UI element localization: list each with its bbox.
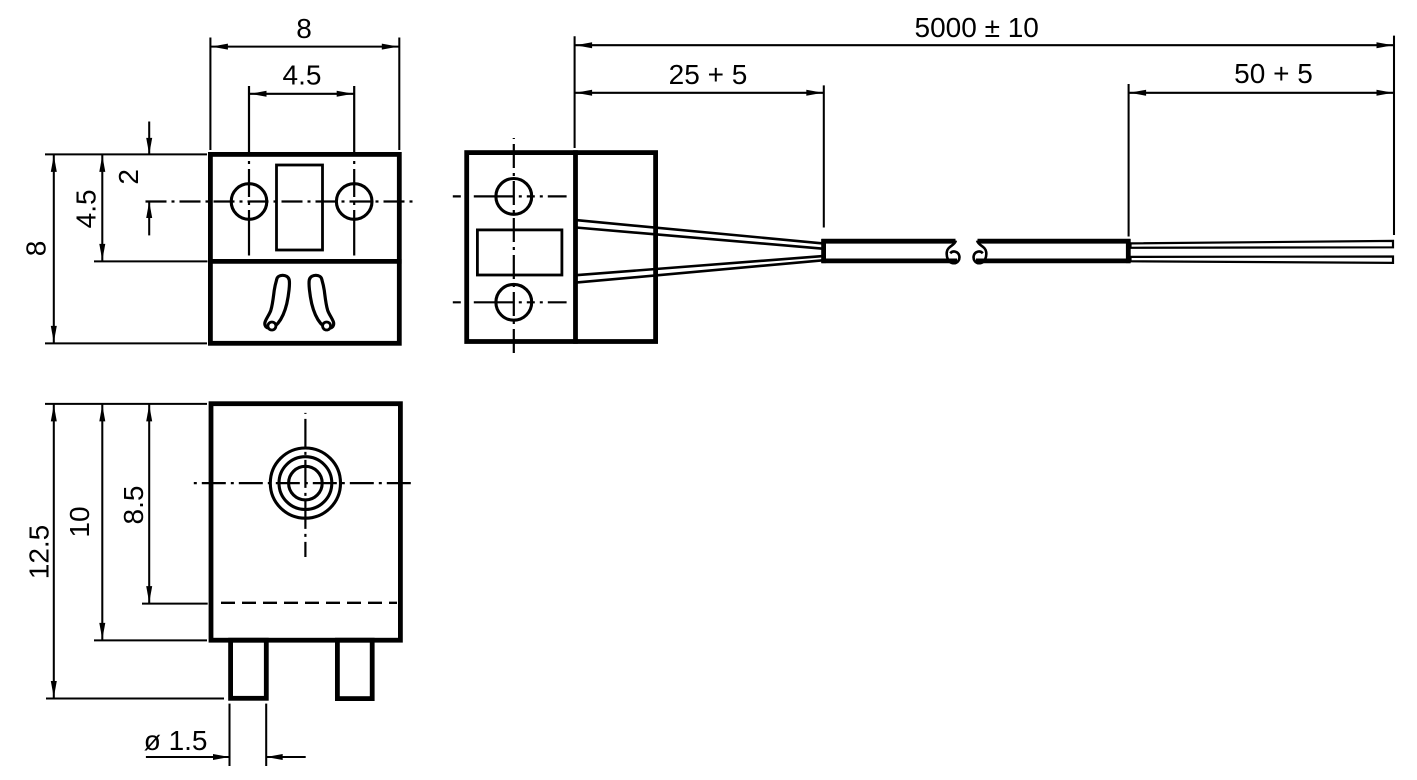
- right hook toe circle: [323, 322, 331, 330]
- vertical centerline left hole: [248, 86, 250, 256]
- cable left segment bottom jacket line: [821, 258, 957, 263]
- bottom hole circle side view: [496, 284, 532, 320]
- svg-text:12.5: 12.5: [24, 525, 55, 580]
- vertical centerline right hole: [353, 86, 355, 256]
- extension line at cable start: [823, 85, 825, 227]
- dim 2 vertical line lower tail: [148, 202, 150, 236]
- bushing middle circle: [279, 457, 332, 510]
- left leg: [231, 640, 267, 698]
- svg-text:ø 1.5: ø 1.5: [144, 725, 208, 756]
- dim 8 horizontal line: [210, 46, 399, 48]
- svg-text:10: 10: [64, 506, 95, 537]
- top hole circle side view: [496, 179, 532, 215]
- horizontal centerline top view: [142, 200, 415, 202]
- cable left segment top jacket line: [821, 239, 955, 244]
- svg-text:4.5: 4.5: [70, 189, 101, 228]
- horizontal centerline top hole: [453, 195, 567, 197]
- extension line at wire tip end: [1393, 36, 1395, 235]
- body outline front view: [211, 404, 400, 641]
- horizontal centerline bottom hole: [453, 301, 567, 303]
- dim 8.5 vertical line: [148, 404, 150, 604]
- left bent lead hook: [265, 275, 290, 330]
- extension line below left leg right: [265, 704, 267, 766]
- cable break squiggle left: [947, 241, 960, 264]
- dim 25+5 line: [575, 92, 824, 94]
- horizontal centerline front view: [194, 482, 413, 484]
- left hook toe circle: [268, 322, 276, 330]
- hidden dashed line front view: [221, 602, 397, 604]
- dim 8 vertical line left: [53, 154, 55, 343]
- divider line side view: [573, 150, 578, 343]
- svg-text:8: 8: [20, 241, 51, 257]
- dim 2 vertical line upper tail: [148, 122, 150, 155]
- arrows cable dims: [576, 42, 593, 48]
- dim 50+5 line: [1129, 92, 1394, 94]
- svg-text:50 + 5: 50 + 5: [1234, 58, 1313, 89]
- cable right segment top jacket line: [978, 239, 1131, 244]
- cable right end cap: [1126, 239, 1131, 263]
- svg-text:2: 2: [113, 169, 144, 185]
- extension line right of dim 8: [398, 38, 400, 151]
- divider reference extension line of dim 4.5: [94, 260, 208, 262]
- cable left end cap: [821, 239, 826, 263]
- cable right segment bottom jacket line: [976, 258, 1131, 263]
- top reference extension line: [45, 153, 207, 155]
- dim 1.5 line right tail: [266, 756, 306, 758]
- wire end bar lower: [1131, 257, 1394, 263]
- arrows top view dims: [211, 44, 228, 50]
- body outline side view: [467, 153, 656, 342]
- bottom reference extension line of dim 8: [45, 342, 207, 344]
- bottom reference extension line dim 10: [94, 639, 207, 641]
- right hole circle: [336, 184, 372, 220]
- vertical centerline side view: [513, 138, 515, 356]
- reference extension line dim 8.5: [142, 603, 208, 605]
- svg-text:8.5: 8.5: [118, 486, 149, 525]
- dim 5000 line: [575, 44, 1394, 46]
- extension line left of dim 8: [209, 38, 211, 151]
- svg-text:5000 ± 10: 5000 ± 10: [915, 12, 1039, 43]
- svg-text:25 + 5: 25 + 5: [669, 59, 748, 90]
- dim 12.5 vertical line: [53, 404, 55, 699]
- inner window rectangle top view: [277, 165, 323, 250]
- vertical centerline front view: [304, 413, 306, 557]
- bushing outer circle: [270, 448, 340, 518]
- cable break squiggle right (mirror): [974, 241, 987, 264]
- arrows front view dims: [51, 405, 57, 422]
- upper wire bottom line: [576, 228, 823, 249]
- right bent lead hook (mirror): [309, 275, 334, 330]
- wire end bar upper: [1131, 241, 1394, 248]
- extension line at wire exit: [574, 36, 576, 148]
- divider line top view: [208, 259, 402, 264]
- body outline top view: [210, 154, 399, 343]
- dim 1.5 line left tail: [146, 756, 230, 758]
- bushing inner circle: [289, 466, 323, 500]
- top reference extension line front view: [45, 403, 207, 405]
- right leg: [337, 640, 372, 698]
- dim 10 vertical line: [101, 404, 103, 641]
- svg-text:4.5: 4.5: [283, 59, 322, 90]
- dim 4.5 horizontal line: [249, 93, 354, 95]
- extension line below left leg left: [228, 704, 230, 766]
- lower wire bottom line: [576, 260, 823, 282]
- extension line at cable right end: [1128, 84, 1130, 237]
- bottom reference extension line dim 12.5: [46, 697, 224, 699]
- upper wire top line: [576, 220, 823, 243]
- inner window rectangle side view: [477, 230, 562, 275]
- dim 4.5 vertical line left: [101, 154, 103, 261]
- lower wire top line: [576, 256, 823, 275]
- left hole circle: [231, 184, 267, 220]
- svg-text:8: 8: [296, 13, 312, 44]
